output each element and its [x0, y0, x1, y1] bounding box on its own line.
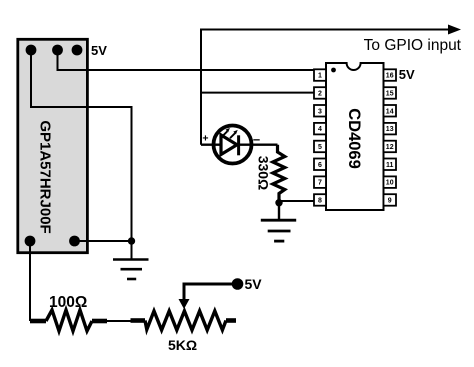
svg-text:CD4069: CD4069 [345, 108, 363, 169]
LED arrow 1 [222, 131, 227, 136]
ground GND1 [113, 260, 149, 280]
svg-text:2: 2 [318, 91, 322, 98]
potentiometer R3 5K [131, 318, 146, 323]
pin dot sensor bottom-right [69, 236, 80, 247]
sensor U2 GP1A57HRJ00F body [18, 39, 88, 252]
svg-text:11: 11 [386, 162, 394, 169]
pin numbers right [386, 73, 394, 205]
LED D1 [214, 126, 252, 164]
IC U1 CD4069 body with notch [326, 63, 384, 210]
svg-text:5KΩ: 5KΩ [168, 337, 197, 353]
svg-text:5: 5 [318, 144, 322, 151]
wire R1 to potentiometer [106, 320, 132, 322]
pin dot sensor bottom-left [25, 236, 36, 247]
svg-text:9: 9 [388, 198, 392, 205]
ground GND2 [261, 220, 296, 241]
arrowhead GPIO [448, 25, 461, 35]
resistor R2 330ohm (vertical) [273, 145, 285, 203]
wire sensor bottom-right pin to ground junction [75, 240, 132, 242]
svg-text:16: 16 [386, 73, 394, 80]
svg-text:To GPIO input: To GPIO input [364, 37, 462, 54]
LED arrow 2 [230, 133, 235, 138]
svg-text:5V: 5V [91, 43, 107, 58]
wire inverter output node to U1 pin 2 [201, 92, 314, 94]
svg-text:12: 12 [386, 144, 394, 151]
resistor R1 100ohm [30, 319, 46, 324]
pin dot sensor top-middle [52, 45, 63, 56]
svg-text:GP1A57HRJ00F: GP1A57HRJ00F [37, 120, 54, 233]
svg-text:5V: 5V [399, 67, 415, 82]
svg-text:5V: 5V [245, 276, 263, 292]
svg-text:13: 13 [386, 126, 394, 133]
svg-text:15: 15 [386, 91, 394, 98]
U1 pins left 1-8 [314, 69, 326, 205]
svg-text:330Ω: 330Ω [256, 156, 272, 191]
pin numbers left [318, 73, 322, 205]
svg-text:100Ω: 100Ω [49, 294, 87, 311]
svg-text:6: 6 [318, 162, 322, 169]
svg-text:10: 10 [386, 180, 394, 187]
node: LED/resistor ground junction J2 [275, 199, 282, 206]
svg-text:7: 7 [318, 180, 322, 187]
svg-text:–: – [253, 132, 260, 147]
wire sensor bottom-left pin down to resistor R1 [29, 241, 31, 321]
node: ground junction J1 [128, 237, 135, 244]
U1 pins right 16-9 [384, 69, 397, 205]
wire: GPIO rail from inverter output, with arrow [201, 30, 449, 145]
wire sensor gnd pin down/right to ground stem [31, 50, 132, 259]
wire sensor output pin to U1 pin 1 [58, 50, 315, 70]
node: 5V terminal [232, 278, 244, 290]
pin1 index dot [331, 68, 336, 73]
wiper wire to 5V [184, 284, 238, 302]
svg-text:14: 14 [386, 108, 394, 115]
wiper arrowhead [179, 299, 190, 309]
svg-text:8: 8 [318, 198, 322, 205]
wire LED anode feed [201, 143, 278, 145]
svg-text:4: 4 [318, 126, 322, 133]
svg-text:3: 3 [318, 108, 322, 115]
svg-text:1: 1 [318, 73, 322, 80]
pin dot sensor top-right [72, 45, 83, 56]
wire junction to ground [278, 203, 280, 219]
wire junction to U1 pin 8 [279, 200, 314, 202]
svg-text:+: + [202, 133, 208, 145]
pin dot sensor top-left [26, 45, 37, 56]
